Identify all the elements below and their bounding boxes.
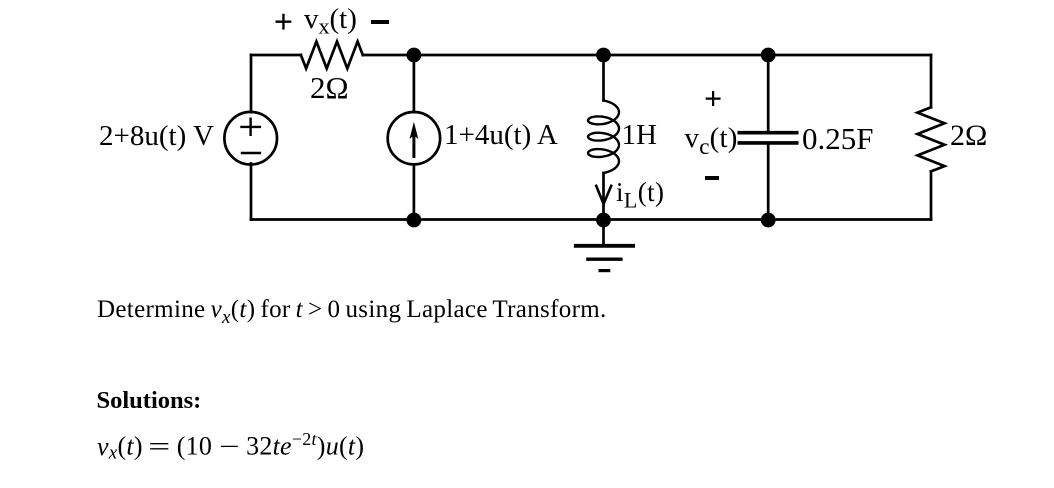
wire current-source branch upper <box>413 55 416 112</box>
wire inductor branch lower <box>602 173 605 220</box>
wire top rail <box>363 54 931 57</box>
label 1H inductor value <box>622 121 657 150</box>
wire capacitor branch lower <box>767 145 770 220</box>
voltage source minus sign <box>242 152 260 154</box>
label 2ohm for R1 <box>310 72 349 103</box>
node dot top current-source <box>407 48 422 63</box>
node dot bottom capacitor <box>761 213 776 228</box>
wire top-left segment <box>251 54 301 57</box>
label 1+4u(t) A source value <box>444 121 558 150</box>
ground stub <box>602 220 605 245</box>
resistor R2 2ohm right zigzag <box>918 107 945 171</box>
label vx(t) voltage above resistor R1 <box>304 5 357 38</box>
solution formula vx(t) <box>97 430 364 462</box>
current source I1 circle <box>388 112 440 164</box>
label 2ohm for R2 <box>950 121 987 151</box>
current source arrowhead <box>410 122 419 139</box>
label minus polarity vc <box>705 176 719 180</box>
label minus polarity vx above resistor R1 <box>371 20 389 24</box>
wire bottom rail <box>251 218 931 221</box>
label vc(t) capacitor voltage <box>685 124 738 158</box>
wire current-source branch lower <box>413 164 416 219</box>
node dot bottom current-source <box>407 213 422 228</box>
ground bar 3 <box>600 269 609 272</box>
label 0.25F capacitor value <box>802 123 874 154</box>
inductor L1 coil <box>588 101 619 173</box>
problem statement text <box>97 297 607 327</box>
voltage source plus sign <box>242 119 260 135</box>
resistor R1 2ohm top zigzag <box>301 42 363 69</box>
label plus polarity vx above resistor R1 <box>274 6 293 40</box>
label 2+8u(t) V source value <box>99 122 214 151</box>
wire right rail upper <box>930 55 933 107</box>
wire left rail lower <box>250 164 253 220</box>
wire left rail upper <box>250 55 253 112</box>
ground bar 2 <box>588 258 621 261</box>
inductor current arrowhead iL down <box>596 186 611 204</box>
wire right rail lower <box>930 171 933 219</box>
capacitor C1 plates <box>739 133 796 143</box>
node dot top inductor <box>596 48 611 63</box>
wire capacitor branch upper <box>767 55 770 131</box>
ground bar 1 <box>576 244 633 248</box>
node dot bottom inductor <box>596 213 611 228</box>
node dot top capacitor <box>761 48 776 63</box>
voltage source V1 circle <box>224 112 277 165</box>
solutions heading <box>97 389 202 414</box>
current source arrow shaft <box>412 130 415 157</box>
label iL(t) inductor current <box>616 179 664 211</box>
label plus polarity vc <box>704 82 722 114</box>
wire inductor branch upper <box>602 55 605 101</box>
